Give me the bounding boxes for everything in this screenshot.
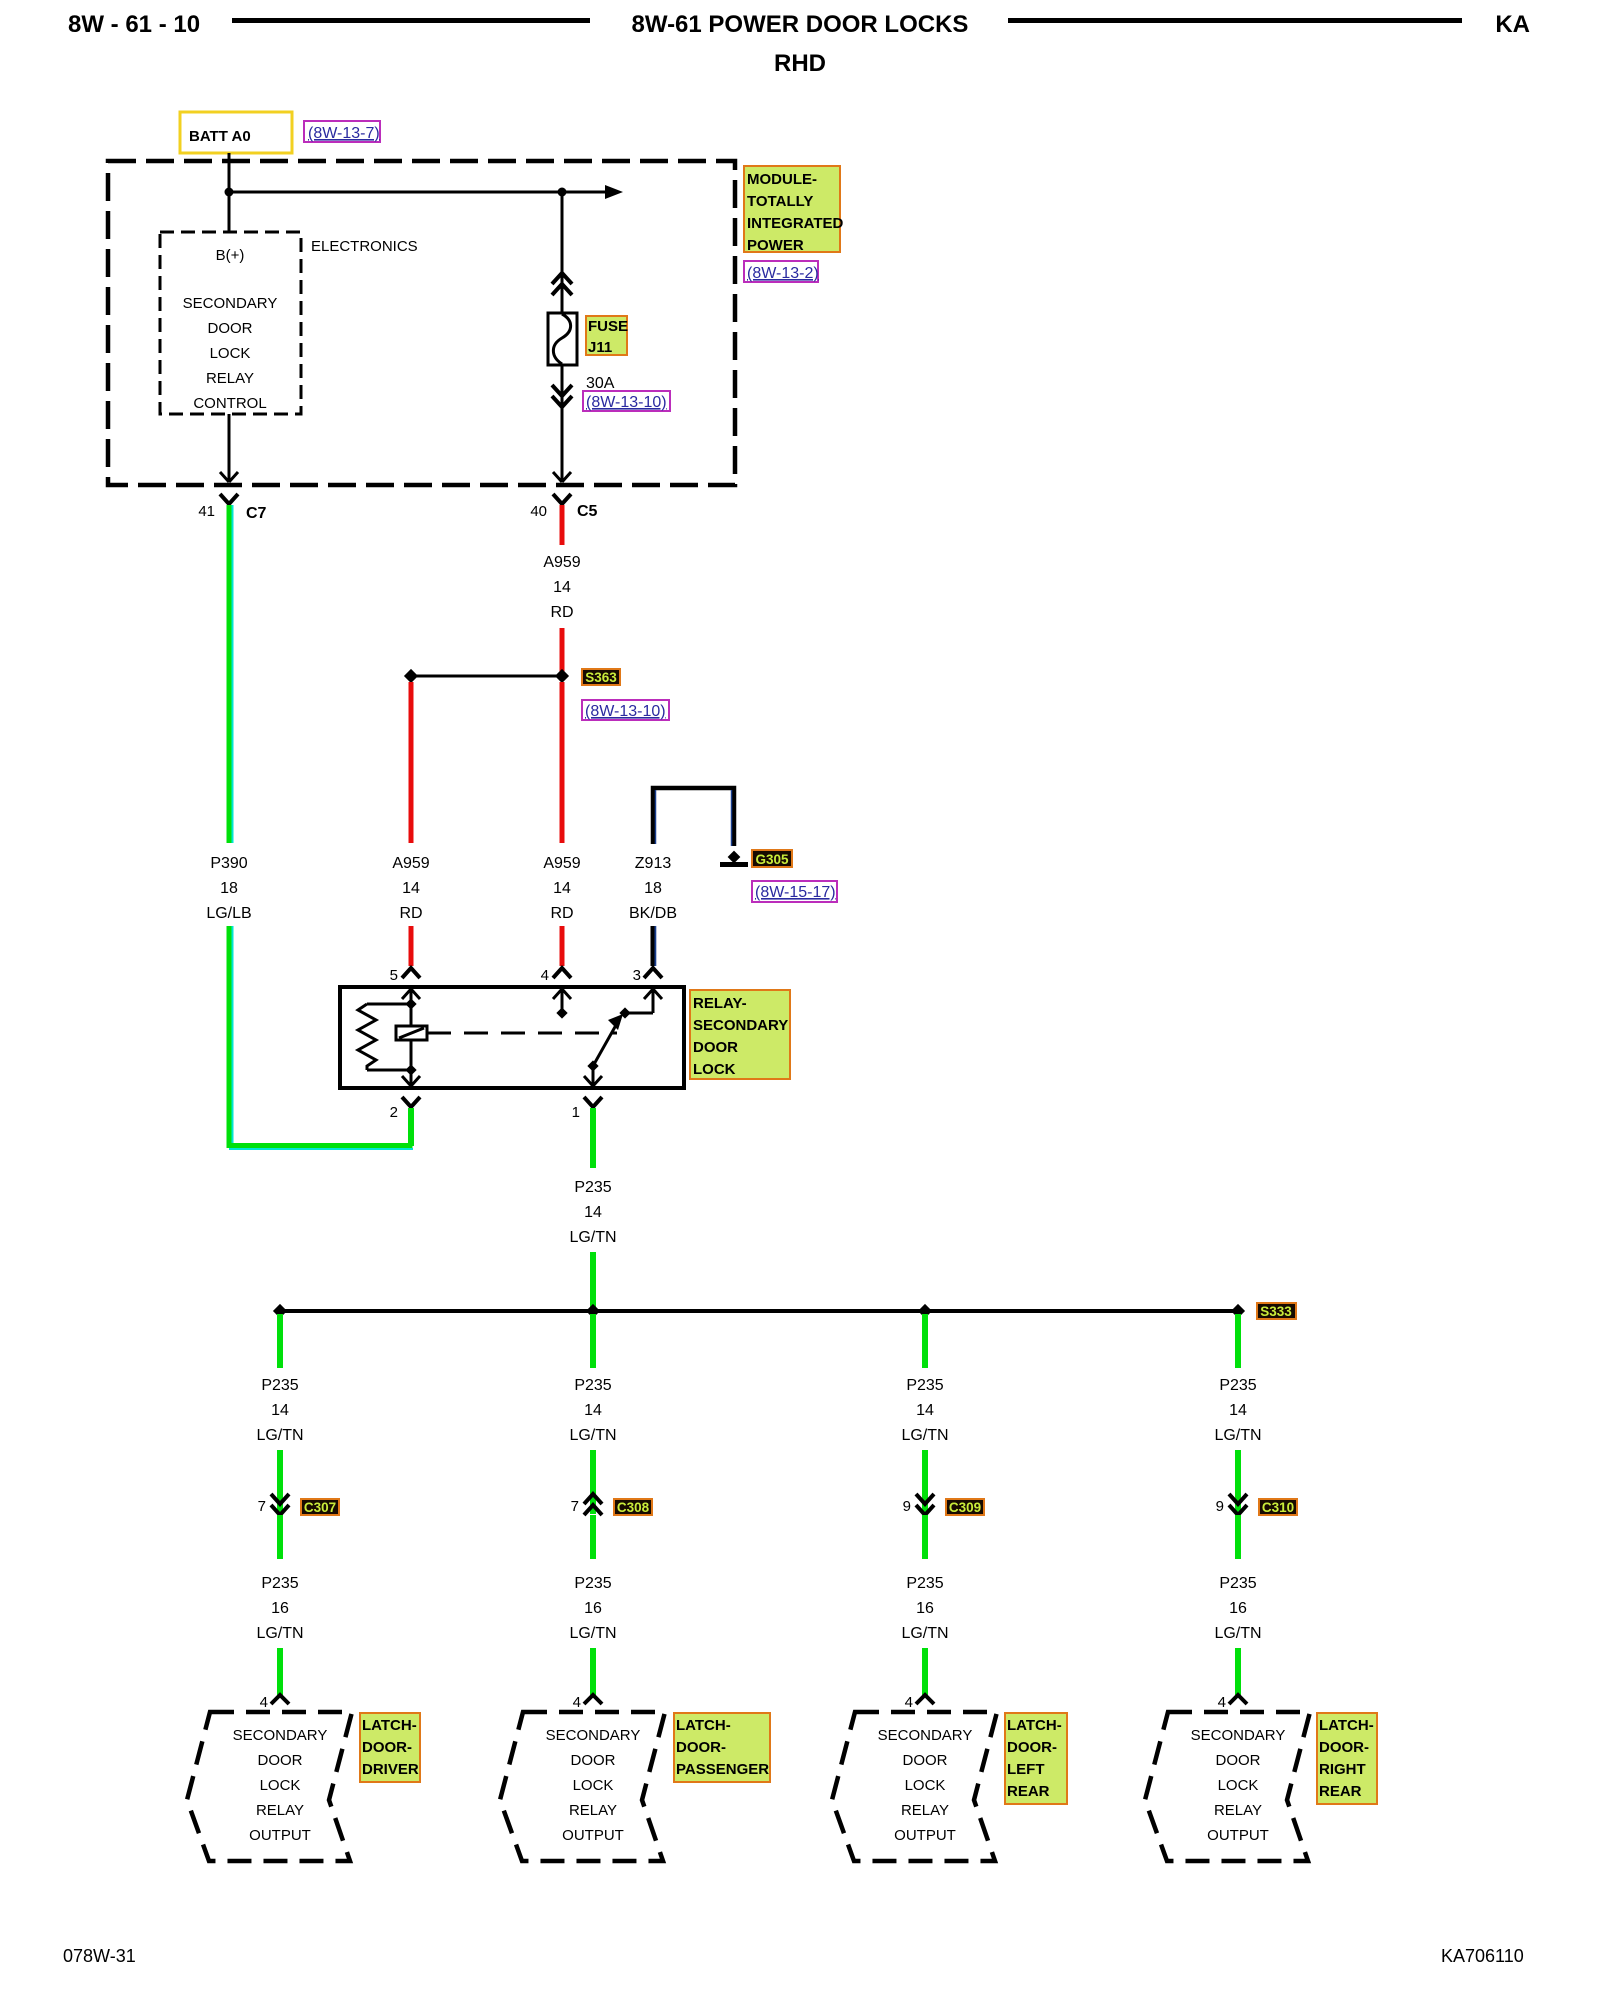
svg-text:SECONDARY: SECONDARY (546, 1727, 641, 1744)
svg-text:RD: RD (399, 905, 422, 922)
page title (632, 11, 969, 77)
wire A959 RD from C5 (560, 505, 565, 545)
inline break chevrons above fuse (552, 273, 572, 295)
svg-text:RELAY: RELAY (901, 1802, 949, 1819)
relay label RELAY-SECONDARY DOOR LOCK (690, 990, 790, 1079)
svg-text:16: 16 (1229, 1600, 1247, 1617)
svg-text:CONTROL: CONTROL (193, 395, 266, 412)
wire A959 RD into splice (560, 628, 565, 676)
battery feed BATT A0 (180, 112, 292, 153)
svg-text:DOOR-: DOOR- (1007, 1739, 1057, 1756)
svg-text:P235: P235 (574, 1377, 611, 1394)
wire label P235 16 LG/TN driver (256, 1575, 303, 1642)
svg-text:LEFT: LEFT (1007, 1761, 1045, 1778)
svg-text:RELAY: RELAY (206, 370, 254, 387)
wire P235 LG/TN from pin 1 (590, 1108, 596, 1168)
svg-text:A959: A959 (543, 554, 580, 571)
svg-text:REAR: REAR (1319, 1783, 1362, 1800)
svg-text:DOOR: DOOR (208, 320, 253, 337)
wire P235 LG/TN passenger seg1 (590, 1314, 596, 1368)
svg-text:DOOR-: DOOR- (676, 1739, 726, 1756)
svg-text:S333: S333 (1260, 1304, 1292, 1319)
wire P235 LG/TN driver seg4 (277, 1648, 283, 1695)
relay coil L1 box (396, 1026, 427, 1040)
svg-text:RHD: RHD (774, 50, 826, 77)
svg-text:LATCH-: LATCH- (362, 1717, 417, 1734)
wire P235 LG/TN right rear seg2 (1235, 1450, 1241, 1514)
relay pin 5 connector (390, 967, 420, 984)
module label MODULE-TOTALLY INTEGRATED POWER (744, 166, 844, 254)
relay pin 2 internal arrow (402, 1070, 420, 1086)
footer sheet number (63, 1946, 136, 1966)
svg-text:LOCK: LOCK (260, 1777, 301, 1794)
svg-text:LG/LB: LG/LB (206, 905, 251, 922)
svg-text:2: 2 (390, 1104, 398, 1121)
link 8W-15-17 (752, 881, 837, 902)
svg-text:7: 7 (258, 1498, 266, 1515)
svg-text:P235: P235 (574, 1179, 611, 1196)
svg-text:LG/TN: LG/TN (901, 1427, 948, 1444)
pin 40 connector C5 (530, 494, 597, 520)
svg-text:DOOR: DOOR (571, 1752, 616, 1769)
wire relay control to pin 41 with arrow (220, 414, 238, 482)
svg-text:9: 9 (903, 1498, 911, 1515)
svg-text:A959: A959 (543, 855, 580, 872)
svg-text:RELAY: RELAY (569, 1802, 617, 1819)
svg-text:14: 14 (553, 579, 571, 596)
relay pin 4 internal arrow and contact (553, 989, 571, 1019)
svg-text:POWER: POWER (747, 237, 804, 254)
svg-text:INTEGRATED: INTEGRATED (747, 215, 844, 232)
wire label P235 14 LG/TN left rear (901, 1377, 948, 1444)
wire P235 LG/TN left rear seg2 (922, 1450, 928, 1514)
svg-text:18: 18 (644, 880, 662, 897)
svg-text:C5: C5 (577, 503, 598, 520)
svg-text:C309: C309 (949, 1500, 981, 1515)
svg-text:SECONDARY: SECONDARY (878, 1727, 973, 1744)
svg-text:LOCK: LOCK (905, 1777, 946, 1794)
link 8W-13-10 upper (583, 391, 670, 411)
svg-text:LATCH-: LATCH- (1319, 1717, 1374, 1734)
svg-text:S363: S363 (585, 670, 617, 685)
svg-text:ELECTRONICS: ELECTRONICS (311, 238, 418, 255)
value label 30A (586, 375, 615, 392)
wire A959 RD mid lower to pin 4 (560, 926, 565, 966)
wire label A959 14 RD left (392, 855, 429, 922)
splice S363 junction diamond right (555, 669, 569, 683)
svg-text:J11: J11 (588, 339, 612, 356)
connector label C310 (1259, 1499, 1297, 1515)
relay coil wire (410, 1004, 413, 1070)
svg-text:RELAY: RELAY (1214, 1802, 1262, 1819)
inline connector C309 pin 9 (903, 1494, 934, 1515)
wire label P390 18 LG/LB (206, 855, 251, 922)
svg-text:41: 41 (198, 503, 215, 520)
svg-text:P235: P235 (1219, 1377, 1256, 1394)
inline connector C307 pin 7 (258, 1494, 289, 1515)
wire label P235 14 LG/TN pin1 (569, 1179, 616, 1246)
latch label LATCH-DOOR-LEFT REAR (1005, 1713, 1067, 1804)
inline connector C310 pin 9 (1216, 1494, 1247, 1515)
svg-text:LATCH-: LATCH- (676, 1717, 731, 1734)
svg-text:14: 14 (584, 1402, 602, 1419)
svg-text:OUTPUT: OUTPUT (894, 1827, 956, 1844)
wire P235 LG/TN driver seg1 (277, 1314, 283, 1368)
svg-text:PASSENGER: PASSENGER (676, 1761, 769, 1778)
svg-text:5: 5 (390, 967, 398, 984)
svg-text:P235: P235 (906, 1377, 943, 1394)
latch pin 4 connector driver (260, 1694, 289, 1711)
connector label C309 (946, 1499, 984, 1515)
svg-text:TOTALLY: TOTALLY (747, 193, 813, 210)
wire label P235 14 LG/TN passenger (569, 1377, 616, 1444)
splice label S333 (1257, 1303, 1296, 1319)
svg-text:LATCH-: LATCH- (1007, 1717, 1062, 1734)
splice label S363 (582, 669, 620, 685)
wire label P235 14 LG/TN right rear (1214, 1377, 1261, 1444)
svg-text:SECONDARY: SECONDARY (183, 295, 278, 312)
connector label C308 (614, 1499, 652, 1515)
wire internal B+ bus (229, 191, 608, 194)
wire P235 LG/TN passenger seg4 (590, 1648, 596, 1695)
wire P235 LG/TN right rear seg4 (1235, 1648, 1241, 1695)
svg-text:4: 4 (573, 1694, 581, 1711)
wire P235 LG/TN right rear seg1 (1235, 1314, 1241, 1368)
svg-text:DOOR-: DOOR- (1319, 1739, 1369, 1756)
header rule right (1008, 18, 1462, 23)
svg-text:4: 4 (1218, 1694, 1226, 1711)
svg-text:40: 40 (530, 503, 547, 520)
svg-text:C310: C310 (1262, 1500, 1294, 1515)
svg-text:1: 1 (572, 1104, 580, 1121)
svg-text:SECONDARY: SECONDARY (693, 1017, 788, 1034)
wire Z913 BK/DB loop (653, 788, 734, 846)
splice S333 junction diamond driver (273, 1304, 287, 1318)
wire P235 LG/TN right rear seg3 (1235, 1515, 1241, 1559)
page header left (68, 11, 200, 38)
svg-text:A959: A959 (392, 855, 429, 872)
wire label P235 16 LG/TN passenger (569, 1575, 616, 1642)
svg-text:LG/TN: LG/TN (569, 1229, 616, 1246)
svg-text:(8W-15-17): (8W-15-17) (755, 884, 836, 901)
svg-text:P235: P235 (574, 1575, 611, 1592)
svg-text:DOOR-: DOOR- (362, 1739, 412, 1756)
svg-text:KA706110: KA706110 (1441, 1946, 1524, 1966)
svg-text:30A: 30A (586, 375, 615, 392)
wire A959 RD branch left upper (409, 682, 414, 843)
svg-text:OUTPUT: OUTPUT (249, 1827, 311, 1844)
svg-text:14: 14 (553, 880, 571, 897)
svg-text:BK/DB: BK/DB (629, 905, 677, 922)
svg-text:16: 16 (916, 1600, 934, 1617)
svg-text:DOOR: DOOR (693, 1039, 738, 1056)
svg-text:18: 18 (220, 880, 238, 897)
relay mechanical dashed link (427, 1032, 617, 1035)
latch pin 4 connector passenger (573, 1694, 602, 1711)
inline break chevrons below fuse (552, 385, 572, 407)
wire P235 LG/TN into splice S333 (590, 1252, 596, 1310)
wire P235 LG/TN driver seg3 (277, 1515, 283, 1559)
svg-text:P390: P390 (210, 855, 247, 872)
label ELECTRONICS (311, 238, 418, 255)
wire label P235 14 LG/TN driver (256, 1377, 303, 1444)
svg-text:RD: RD (550, 905, 573, 922)
svg-text:RIGHT: RIGHT (1319, 1761, 1366, 1778)
svg-text:DOOR: DOOR (903, 1752, 948, 1769)
link 8W-13-7 (304, 121, 380, 142)
latch passenger secondary door lock relay output outline (500, 1712, 665, 1861)
relay pin 3 internal arrow and contact (619, 989, 662, 1019)
relay resistor R1 (358, 1004, 411, 1070)
splice S333 junction diamond right rear (1231, 1304, 1245, 1318)
svg-text:LG/TN: LG/TN (256, 1427, 303, 1444)
ground label G305 (752, 850, 792, 867)
relay coil branch junction bottom (405, 1064, 416, 1075)
wire P390 LG/LB upper segment (227, 505, 234, 843)
svg-text:P235: P235 (906, 1575, 943, 1592)
svg-text:LG/TN: LG/TN (569, 1427, 616, 1444)
svg-text:(8W-13-7): (8W-13-7) (308, 125, 380, 142)
wire pin2 green (408, 1108, 414, 1146)
junction dot B (558, 188, 567, 197)
latch label LATCH-DOOR-RIGHT REAR (1317, 1713, 1377, 1804)
latch label LATCH-DOOR-DRIVER (360, 1713, 420, 1782)
wire P235 LG/TN driver seg2 (277, 1450, 283, 1514)
wire label P235 16 LG/TN left rear (901, 1575, 948, 1642)
wire Z913 BK/DB lower to pin 3 (651, 926, 657, 966)
relay pin 1 connector (572, 1097, 602, 1121)
svg-text:RELAY: RELAY (256, 1802, 304, 1819)
svg-text:BATT A0: BATT A0 (189, 128, 251, 145)
svg-text:LG/TN: LG/TN (256, 1625, 303, 1642)
svg-text:4: 4 (541, 967, 549, 984)
secondary door lock relay control block dashed (160, 232, 301, 414)
wire label A959 14 RD upper (543, 554, 580, 621)
wire label P235 16 LG/TN right rear (1214, 1575, 1261, 1642)
latch right rear secondary door lock relay output outline (1145, 1712, 1310, 1861)
svg-text:078W-31: 078W-31 (63, 1946, 136, 1966)
header rule left (232, 18, 590, 23)
splice S363 bar (411, 675, 562, 678)
svg-text:FUSE: FUSE (588, 318, 628, 335)
fuse F1 J11 (548, 313, 577, 365)
svg-text:RELAY-: RELAY- (693, 995, 747, 1012)
svg-text:KA: KA (1495, 11, 1530, 38)
relay pin 2 connector (390, 1097, 420, 1121)
header page code KA (1495, 11, 1530, 38)
svg-text:C308: C308 (617, 1500, 650, 1515)
svg-text:Z913: Z913 (635, 855, 672, 872)
svg-text:B(+): B(+) (216, 247, 245, 264)
wire P235 LG/TN left rear seg1 (922, 1314, 928, 1368)
svg-text:LG/TN: LG/TN (1214, 1625, 1261, 1642)
svg-text:LG/TN: LG/TN (1214, 1427, 1261, 1444)
svg-text:7: 7 (571, 1498, 579, 1515)
inline connector C308 pin 7 (571, 1494, 602, 1515)
svg-text:MODULE-: MODULE- (747, 171, 817, 188)
svg-text:LOCK: LOCK (1218, 1777, 1259, 1794)
module U1 TIPM dashed outline (108, 161, 735, 485)
svg-text:9: 9 (1216, 1498, 1224, 1515)
ground G305 symbol (720, 851, 748, 867)
svg-text:OUTPUT: OUTPUT (562, 1827, 624, 1844)
relay pin 4 connector (541, 967, 571, 984)
wire P390 LG/LB lower segment to relay pin 2 (227, 926, 414, 1150)
fuse label FUSE J11 (586, 316, 628, 356)
latch left rear secondary door lock relay output outline (832, 1712, 997, 1861)
svg-text:(8W-13-10): (8W-13-10) (586, 394, 667, 411)
wire P235 LG/TN left rear seg4 (922, 1648, 928, 1695)
latch pin 4 connector right rear (1218, 1694, 1247, 1711)
svg-text:14: 14 (916, 1402, 934, 1419)
svg-text:14: 14 (1229, 1402, 1247, 1419)
svg-text:16: 16 (271, 1600, 289, 1617)
svg-text:REAR: REAR (1007, 1783, 1050, 1800)
svg-text:LG/TN: LG/TN (569, 1625, 616, 1642)
wire P235 LG/TN left rear seg3 (922, 1515, 928, 1559)
svg-text:RD: RD (550, 604, 573, 621)
relay switch blade (584, 1014, 623, 1086)
svg-text:(8W-13-10): (8W-13-10) (585, 703, 666, 720)
wire battery feed into module (228, 153, 231, 232)
svg-text:LG/TN: LG/TN (901, 1625, 948, 1642)
relay pin 5 internal arrow (402, 989, 420, 1004)
svg-text:3: 3 (633, 967, 641, 984)
svg-text:14: 14 (402, 880, 420, 897)
svg-text:4: 4 (905, 1694, 913, 1711)
svg-text:G305: G305 (755, 852, 789, 867)
svg-text:(8W-13-2): (8W-13-2) (747, 265, 819, 282)
splice S333 bus bar (280, 1309, 1238, 1313)
svg-text:P235: P235 (261, 1575, 298, 1592)
svg-text:SECONDARY: SECONDARY (1191, 1727, 1286, 1744)
svg-text:4: 4 (260, 1694, 268, 1711)
link 8W-13-2 (744, 261, 819, 282)
svg-text:DOOR: DOOR (1216, 1752, 1261, 1769)
svg-text:LOCK: LOCK (693, 1061, 736, 1078)
splice S363 junction diamond left (404, 669, 418, 683)
svg-text:14: 14 (271, 1402, 289, 1419)
splice S333 junction diamond left rear (918, 1304, 932, 1318)
latch label LATCH-DOOR-PASSENGER (674, 1713, 770, 1782)
svg-text:OUTPUT: OUTPUT (1207, 1827, 1269, 1844)
svg-text:16: 16 (584, 1600, 602, 1617)
junction dot A (225, 188, 234, 197)
wire B+ through fuse to pin 40 with arrow (553, 192, 571, 482)
svg-text:LOCK: LOCK (573, 1777, 614, 1794)
svg-text:P235: P235 (1219, 1575, 1256, 1592)
wire label A959 14 RD mid (543, 855, 580, 922)
latch pin 4 connector left rear (905, 1694, 934, 1711)
connector label C307 (301, 1499, 339, 1515)
arrow B+ feed continues (605, 185, 623, 199)
svg-text:8W-61 POWER DOOR LOCKS: 8W-61 POWER DOOR LOCKS (632, 11, 969, 38)
svg-text:8W - 61 - 10: 8W - 61 - 10 (68, 11, 200, 38)
svg-text:LOCK: LOCK (210, 345, 251, 362)
wire A959 RD mid upper (560, 682, 565, 843)
splice S333 junction diamond passenger (586, 1304, 600, 1318)
relay coil branch junction top (405, 998, 416, 1009)
svg-text:DOOR: DOOR (258, 1752, 303, 1769)
svg-text:C307: C307 (304, 1500, 336, 1515)
link 8W-13-10 lower (582, 700, 669, 720)
svg-text:P235: P235 (261, 1377, 298, 1394)
relay pin 3 connector (633, 967, 662, 984)
wire label Z913 18 BK/DB (629, 855, 677, 922)
svg-text:DRIVER: DRIVER (362, 1761, 419, 1778)
relay K1 box (340, 987, 684, 1088)
wire P235 LG/TN passenger seg2 (590, 1450, 596, 1514)
pin 41 connector C7 (198, 494, 266, 522)
wire A959 RD left lower to pin 5 (409, 926, 414, 966)
footer drawing number (1441, 1946, 1524, 1966)
svg-text:14: 14 (584, 1204, 602, 1221)
svg-text:C7: C7 (246, 505, 267, 522)
svg-text:SECONDARY: SECONDARY (233, 1727, 328, 1744)
latch driver secondary door lock relay output outline (187, 1712, 352, 1861)
wire P235 LG/TN passenger seg3 (590, 1515, 596, 1559)
